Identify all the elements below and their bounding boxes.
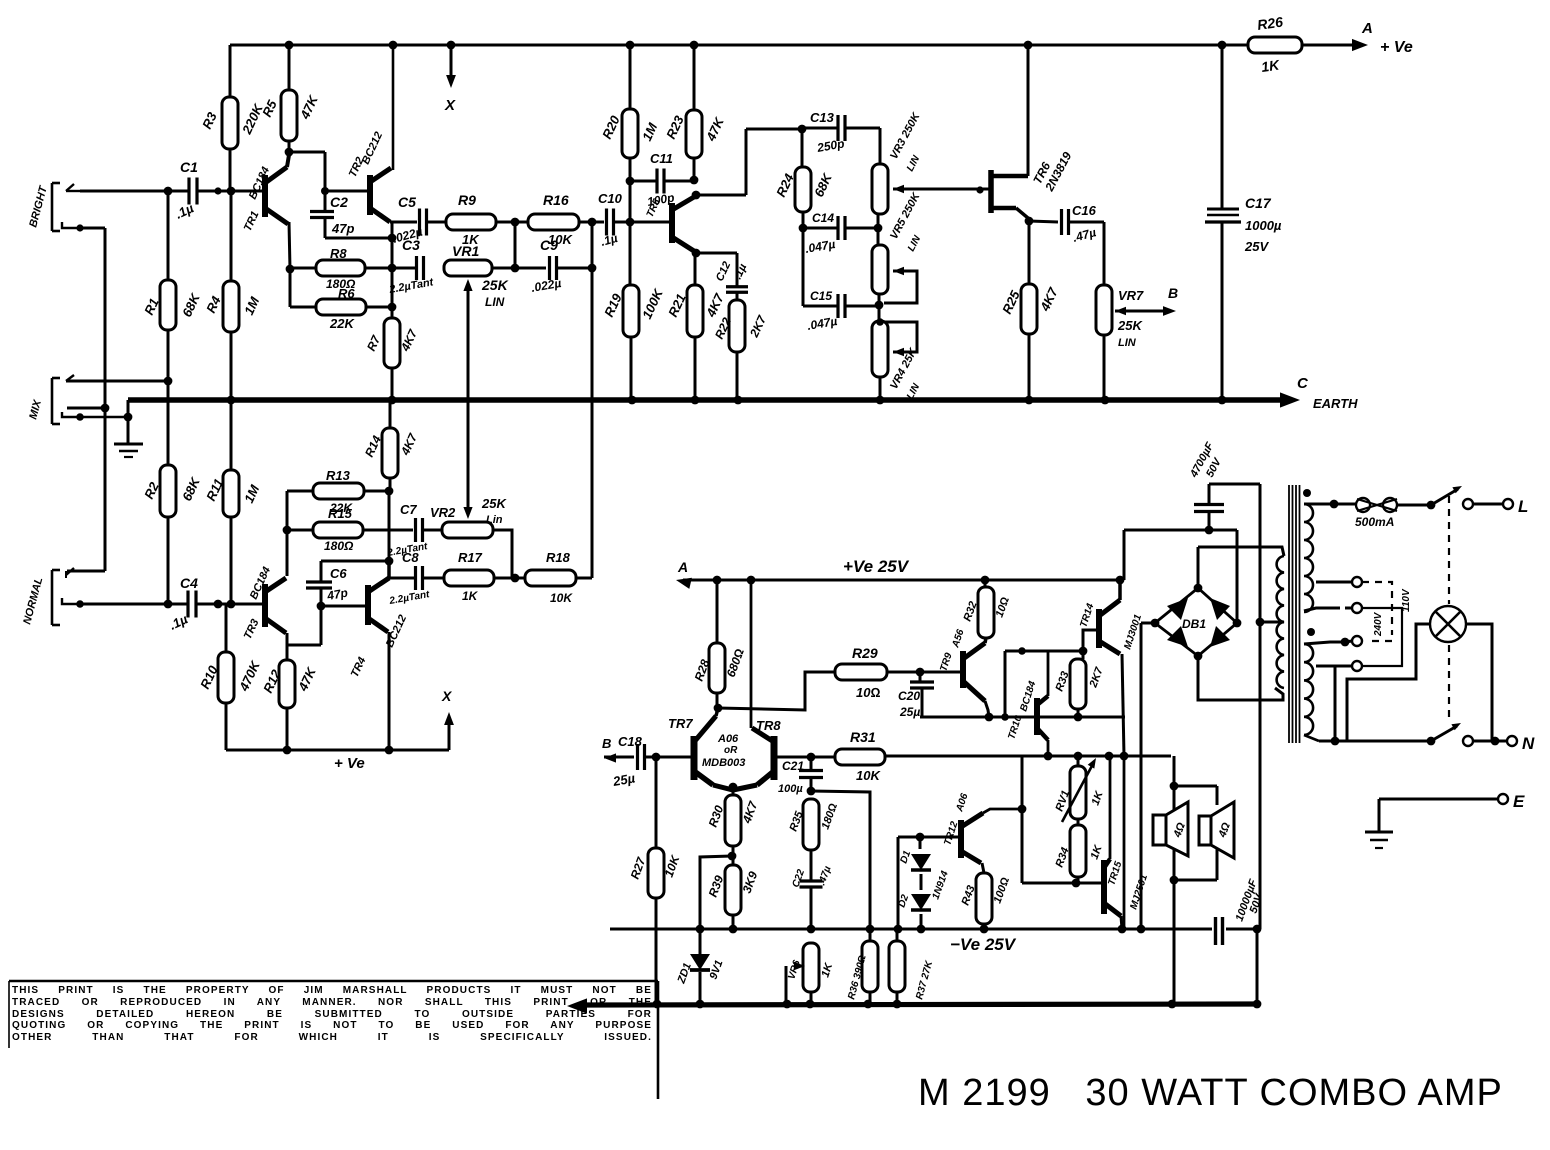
- svg-text:B: B: [1168, 285, 1178, 301]
- svg-text:25V: 25V: [1244, 239, 1269, 254]
- svg-text:180Ω: 180Ω: [324, 539, 354, 553]
- svg-text:R31: R31: [850, 729, 876, 745]
- svg-text:C3: C3: [402, 237, 420, 253]
- svg-text:3K9: 3K9: [740, 869, 761, 895]
- svg-text:.022µ: .022µ: [530, 276, 562, 295]
- svg-text:TR4: TR4: [349, 655, 369, 679]
- svg-text:22K: 22K: [329, 316, 355, 331]
- svg-text:2K7: 2K7: [747, 312, 770, 340]
- svg-text:25µ: 25µ: [611, 770, 637, 789]
- svg-text:2.2µTant: 2.2µTant: [388, 589, 431, 607]
- svg-text:TR9: TR9: [938, 651, 954, 673]
- svg-text:2.2µTant: 2.2µTant: [387, 276, 435, 296]
- svg-text:LIN: LIN: [906, 233, 924, 253]
- svg-text:1K: 1K: [462, 589, 479, 603]
- svg-text:C11: C11: [650, 151, 673, 166]
- svg-text:+Ve 25V: +Ve 25V: [843, 557, 910, 576]
- svg-text:BC184: BC184: [248, 565, 273, 601]
- svg-text:4K7: 4K7: [703, 291, 727, 321]
- svg-text:1M: 1M: [241, 294, 263, 318]
- svg-text:.1µ: .1µ: [173, 200, 196, 222]
- svg-text:2K7: 2K7: [1087, 665, 1106, 690]
- svg-text:68K: 68K: [179, 474, 203, 503]
- svg-text:47p: 47p: [325, 586, 349, 604]
- svg-text:−Ve 25V: −Ve 25V: [950, 935, 1017, 954]
- svg-text:A56: A56: [950, 628, 967, 650]
- svg-text:MIX: MIX: [27, 398, 44, 421]
- svg-text:R30: R30: [706, 803, 727, 829]
- svg-text:Lin: Lin: [486, 514, 503, 526]
- svg-text:D1: D1: [898, 849, 913, 865]
- svg-text:R9: R9: [458, 192, 476, 208]
- svg-text:LIN: LIN: [905, 153, 923, 173]
- svg-text:R37 27K: R37 27K: [914, 959, 935, 1001]
- svg-text:DB1: DB1: [1182, 617, 1206, 631]
- svg-text:10Ω: 10Ω: [856, 685, 880, 700]
- svg-text:R26: R26: [1256, 14, 1284, 33]
- svg-text:47K: 47K: [703, 114, 728, 144]
- svg-text:TR1: TR1: [242, 209, 262, 233]
- svg-text:680Ω: 680Ω: [724, 647, 747, 679]
- svg-text:R15: R15: [328, 506, 353, 521]
- svg-text:X: X: [441, 688, 453, 704]
- svg-text:X: X: [444, 97, 456, 114]
- svg-text:TR7: TR7: [668, 716, 693, 731]
- svg-text:NORMAL: NORMAL: [21, 576, 45, 626]
- svg-text:C17: C17: [1245, 195, 1272, 211]
- svg-text:C2: C2: [330, 194, 348, 210]
- svg-text:1000µ: 1000µ: [1245, 218, 1282, 233]
- svg-text:TR3: TR3: [242, 617, 262, 641]
- svg-text:C: C: [1297, 375, 1309, 392]
- svg-text:250p: 250p: [815, 136, 845, 155]
- svg-text:25K: 25K: [481, 496, 507, 511]
- svg-text:C6: C6: [330, 566, 347, 581]
- svg-text:100Ω: 100Ω: [992, 875, 1013, 905]
- svg-text:+ Ve: + Ve: [1380, 39, 1413, 56]
- svg-text:1K: 1K: [1260, 57, 1281, 75]
- svg-text:C4: C4: [180, 575, 198, 591]
- svg-text:R29: R29: [852, 645, 878, 661]
- svg-text:4K7: 4K7: [739, 798, 760, 826]
- svg-text:.1µ: .1µ: [732, 262, 750, 282]
- svg-text:E: E: [1513, 792, 1525, 811]
- svg-text:LIN: LIN: [1118, 337, 1137, 349]
- svg-text:10K: 10K: [856, 768, 881, 783]
- svg-text:LIN: LIN: [485, 295, 505, 309]
- svg-text:A: A: [677, 559, 688, 575]
- svg-text:+ Ve: + Ve: [334, 755, 365, 772]
- svg-text:R3: R3: [199, 109, 220, 131]
- svg-text:47K: 47K: [297, 92, 322, 122]
- svg-text:VR2: VR2: [430, 505, 456, 520]
- svg-text:A: A: [1361, 20, 1373, 37]
- svg-text:VR1: VR1: [452, 243, 479, 259]
- svg-text:C10: C10: [598, 191, 623, 206]
- svg-text:240V: 240V: [1373, 611, 1384, 637]
- svg-text:100K: 100K: [639, 285, 666, 321]
- svg-text:110V: 110V: [1401, 588, 1412, 612]
- svg-text:1M: 1M: [241, 482, 263, 506]
- svg-text:N: N: [1522, 734, 1535, 753]
- svg-text:C7: C7: [400, 502, 417, 517]
- svg-text:L: L: [1518, 497, 1528, 516]
- svg-text:TR8: TR8: [756, 718, 781, 733]
- svg-text:10Ω: 10Ω: [994, 595, 1013, 619]
- svg-text:.47µ: .47µ: [1071, 225, 1097, 245]
- svg-text:25K: 25K: [1117, 318, 1143, 333]
- svg-text:B: B: [602, 736, 611, 751]
- svg-text:C16: C16: [1072, 203, 1097, 218]
- svg-text:MDB003: MDB003: [702, 757, 745, 769]
- svg-text:500mA: 500mA: [1355, 515, 1394, 529]
- svg-text:C20: C20: [898, 689, 920, 703]
- svg-text:1M: 1M: [639, 120, 661, 144]
- svg-text:C13: C13: [810, 110, 835, 125]
- svg-text:.047µ: .047µ: [804, 237, 836, 256]
- svg-text:C15: C15: [810, 289, 832, 303]
- svg-text:180Ω: 180Ω: [820, 801, 841, 831]
- svg-text:R20: R20: [599, 113, 623, 142]
- svg-text:BC212: BC212: [360, 130, 385, 166]
- svg-text:C5: C5: [398, 194, 416, 210]
- svg-text:R8: R8: [330, 246, 347, 261]
- svg-text:68K: 68K: [179, 290, 203, 319]
- svg-text:C21: C21: [782, 759, 804, 773]
- svg-text:R5: R5: [259, 97, 280, 119]
- svg-text:VR3 250K: VR3 250K: [888, 110, 923, 161]
- svg-text:BRIGHT: BRIGHT: [27, 184, 50, 229]
- svg-text:R6: R6: [338, 286, 355, 301]
- svg-text:C8: C8: [402, 550, 419, 565]
- svg-text:R21: R21: [665, 291, 689, 319]
- svg-text:R16: R16: [543, 192, 569, 208]
- svg-text:A06: A06: [954, 792, 971, 814]
- svg-text:VR5 250K: VR5 250K: [888, 190, 923, 241]
- svg-text:C14: C14: [812, 211, 834, 225]
- svg-text:25µ: 25µ: [899, 705, 920, 719]
- svg-text:R7: R7: [364, 332, 384, 353]
- svg-text:1K: 1K: [1090, 789, 1106, 807]
- svg-text:A06: A06: [717, 733, 739, 745]
- svg-text:1K: 1K: [1089, 843, 1105, 861]
- svg-text:C1: C1: [180, 159, 198, 175]
- svg-text:1K: 1K: [819, 961, 835, 979]
- svg-text:VR6: VR6: [786, 959, 803, 981]
- svg-text:TR14: TR14: [1078, 602, 1096, 629]
- svg-text:R39: R39: [706, 873, 727, 899]
- svg-text:R4: R4: [203, 293, 224, 315]
- svg-text:9V1: 9V1: [708, 959, 726, 982]
- svg-text:R18: R18: [546, 550, 571, 565]
- svg-text:R23: R23: [663, 113, 687, 142]
- svg-text:MJ2501: MJ2501: [1128, 873, 1150, 911]
- svg-text:4K7: 4K7: [398, 430, 421, 458]
- svg-text:R13: R13: [326, 468, 351, 483]
- svg-text:.1µ: .1µ: [599, 231, 619, 249]
- svg-text:EARTH: EARTH: [1313, 396, 1358, 411]
- svg-text:.47µ: .47µ: [816, 865, 833, 887]
- svg-text:ZD1: ZD1: [675, 961, 694, 986]
- svg-text:25K: 25K: [481, 277, 509, 293]
- svg-text:oR: oR: [724, 745, 738, 756]
- svg-text:10K: 10K: [550, 591, 573, 605]
- svg-text:1N914: 1N914: [930, 869, 951, 901]
- svg-text:C9: C9: [540, 237, 558, 253]
- svg-text:4K7: 4K7: [1037, 285, 1061, 315]
- svg-text:47K: 47K: [295, 664, 320, 694]
- svg-text:R17: R17: [458, 550, 483, 565]
- svg-text:100µ: 100µ: [778, 783, 803, 795]
- svg-text:R27: R27: [628, 854, 649, 881]
- svg-text:VR7: VR7: [1118, 288, 1144, 303]
- svg-text:TR12: TR12: [942, 820, 960, 847]
- svg-text:47p: 47p: [331, 221, 354, 236]
- svg-text:C12: C12: [714, 260, 733, 283]
- svg-text:68K: 68K: [811, 170, 835, 199]
- svg-text:.047µ: .047µ: [806, 314, 838, 333]
